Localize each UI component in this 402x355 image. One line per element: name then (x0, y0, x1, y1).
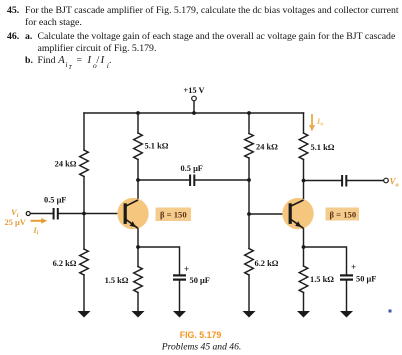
wire output node to Q2 collector (291, 181, 304, 207)
wire base node to 6.2k (83, 214, 85, 250)
wire 6.2k stage2 to ground (248, 275, 250, 311)
wire 5.1k branch stage1 upper (137, 113, 139, 133)
wire emitter node stage1 to bypass cap (138, 247, 180, 274)
terminal Vi input (26, 212, 30, 216)
resistor 6.2k stage1 (80, 249, 89, 275)
wire output node to output cap (304, 180, 342, 182)
svg-text:24 kΩ: 24 kΩ (256, 143, 278, 152)
svg-text:5.1 kΩ: 5.1 kΩ (145, 142, 169, 151)
node junction rail-24k stage2 (247, 111, 251, 115)
wire emitter node to 1.5k stage1 (137, 247, 139, 267)
wire collector node to Q1 collector (126, 180, 138, 206)
svg-text:50 μF: 50 μF (190, 276, 210, 285)
svg-text:6.2 kΩ: 6.2 kΩ (53, 259, 77, 268)
transistor Q2 base bar (289, 203, 292, 224)
ground stage2 divider (243, 311, 256, 318)
beta box Q1 (156, 208, 192, 222)
beta box Q2 (326, 208, 360, 221)
arrow Io (311, 114, 313, 126)
wire 5.1k to collector node stage1 (137, 160, 139, 181)
svg-text:+15 V: +15 V (183, 86, 204, 95)
wire rail to 24k stage2 (248, 113, 250, 134)
wire coupling cap to Q1 base (59, 213, 124, 215)
transistor Q2 collector/emitter lines (291, 200, 304, 228)
wire top supply rail (84, 112, 304, 114)
wire 24k to base node (83, 177, 85, 214)
ground stage1 bypass cap (173, 311, 186, 318)
wire left branch upper (rail to 24k) (83, 113, 85, 150)
transistor Q2 circle (282, 198, 313, 229)
wire 1.5k stage2 to ground (303, 293, 305, 312)
wire rail to 5.1k stage2 (303, 113, 305, 133)
wire Q1 emitter to emitter node (126, 220, 138, 248)
transistor Q1 collector/emitter lines (126, 200, 138, 228)
resistor 5.1k stage2 (299, 133, 308, 160)
svg-text:+: + (184, 264, 189, 274)
svg-text:Io: Io (316, 116, 323, 128)
wire base node stage2 to Q2 base (249, 213, 289, 215)
node junction output (302, 179, 306, 183)
wire 5.1k stage2 to output node (303, 160, 305, 181)
wire Q2 emitter down (291, 220, 304, 248)
capacitor 0.5uF interstage (190, 175, 194, 187)
resistor 1.5k stage2 (299, 266, 308, 293)
wire bypass cap stage1 to ground (179, 281, 181, 311)
problem 45 text (7, 5, 19, 17)
svg-text:FIG. 5.179: FIG. 5.179 (180, 330, 222, 340)
node junction collector stage1 (136, 178, 140, 182)
svg-text:25 μV: 25 μV (5, 218, 26, 227)
wire input to coupling cap (30, 213, 53, 215)
problem 46 text (7, 31, 19, 43)
node junction cap-divider stage2 (247, 178, 251, 182)
node junction base stage1 (82, 212, 86, 216)
ground stage2 emitter resistor (297, 311, 310, 318)
svg-text:0.5 μF: 0.5 μF (181, 164, 203, 173)
wire 6.2k to ground (83, 275, 85, 311)
capacitor output (342, 175, 346, 187)
resistor 24k stage2 (245, 134, 254, 159)
wire interstage cap to stage2 divider node (195, 179, 249, 181)
wire cap node to base node stage2 (248, 180, 250, 214)
svg-text:1.5 kΩ: 1.5 kΩ (310, 275, 334, 284)
wire base node to 6.2k stage2 (248, 214, 250, 249)
wire output cap to Vo terminal (347, 180, 383, 182)
resistor 5.1k stage1 (134, 133, 143, 160)
wire collector node stage1 to interstage cap (138, 179, 189, 181)
terminal Vo output (384, 178, 389, 183)
svg-text:+: + (351, 262, 356, 272)
node junction emitter stage2 (302, 245, 306, 249)
svg-text:Ii: Ii (33, 226, 39, 237)
wire emitter node stage2 to 1.5k (303, 247, 305, 266)
transistor Q1 base bar (124, 203, 127, 224)
node junction base stage2 (247, 212, 251, 216)
stray blue dot (389, 310, 392, 313)
transistor Q2 emitter arrow (295, 221, 301, 227)
svg-text:Problems 45 and 46.: Problems 45 and 46. (161, 342, 242, 353)
ground stage1 emitter resistor (132, 311, 145, 318)
transistor Q1 emitter arrow (130, 221, 136, 227)
wire 24k stage2 to cap node (248, 158, 250, 180)
wire emitter node stage2 to bypass cap (304, 247, 347, 274)
resistor 1.5k stage1 (134, 267, 143, 293)
transistor Q1 circle (117, 198, 148, 229)
svg-text:5.1 kΩ: 5.1 kΩ (311, 143, 335, 152)
svg-text:24 kΩ: 24 kΩ (55, 160, 77, 169)
svg-text:50 μF: 50 μF (356, 275, 376, 284)
svg-text:β = 150: β = 150 (160, 210, 187, 220)
capacitor 50uF stage2 plates (340, 275, 353, 279)
svg-text:6.2 kΩ: 6.2 kΩ (255, 259, 279, 268)
svg-text:β = 150: β = 150 (330, 210, 357, 220)
ground stage2 bypass cap (340, 311, 353, 318)
wire 1.5k to ground stage1 (137, 293, 139, 312)
resistor 6.2k stage2 (245, 249, 254, 276)
svg-text:0.5 μF: 0.5 μF (44, 196, 66, 205)
svg-text:Vo: Vo (390, 177, 400, 189)
capacitor 50uF stage1 plates (173, 275, 186, 279)
arrow Ii input (31, 220, 43, 222)
terminal +15V (192, 96, 197, 101)
node junction rail-5.1k stage1 (136, 111, 140, 115)
node junction rail +15V (192, 111, 196, 115)
ground stage1 divider (78, 311, 91, 318)
wire bypass cap stage2 to ground (346, 281, 348, 311)
wire +15V drop (193, 101, 195, 113)
resistor 24k stage1 (80, 150, 89, 177)
capacitor 0.5uF input (54, 208, 58, 220)
svg-text:1.5 kΩ: 1.5 kΩ (105, 276, 129, 285)
node junction emitter stage1 (136, 245, 140, 249)
